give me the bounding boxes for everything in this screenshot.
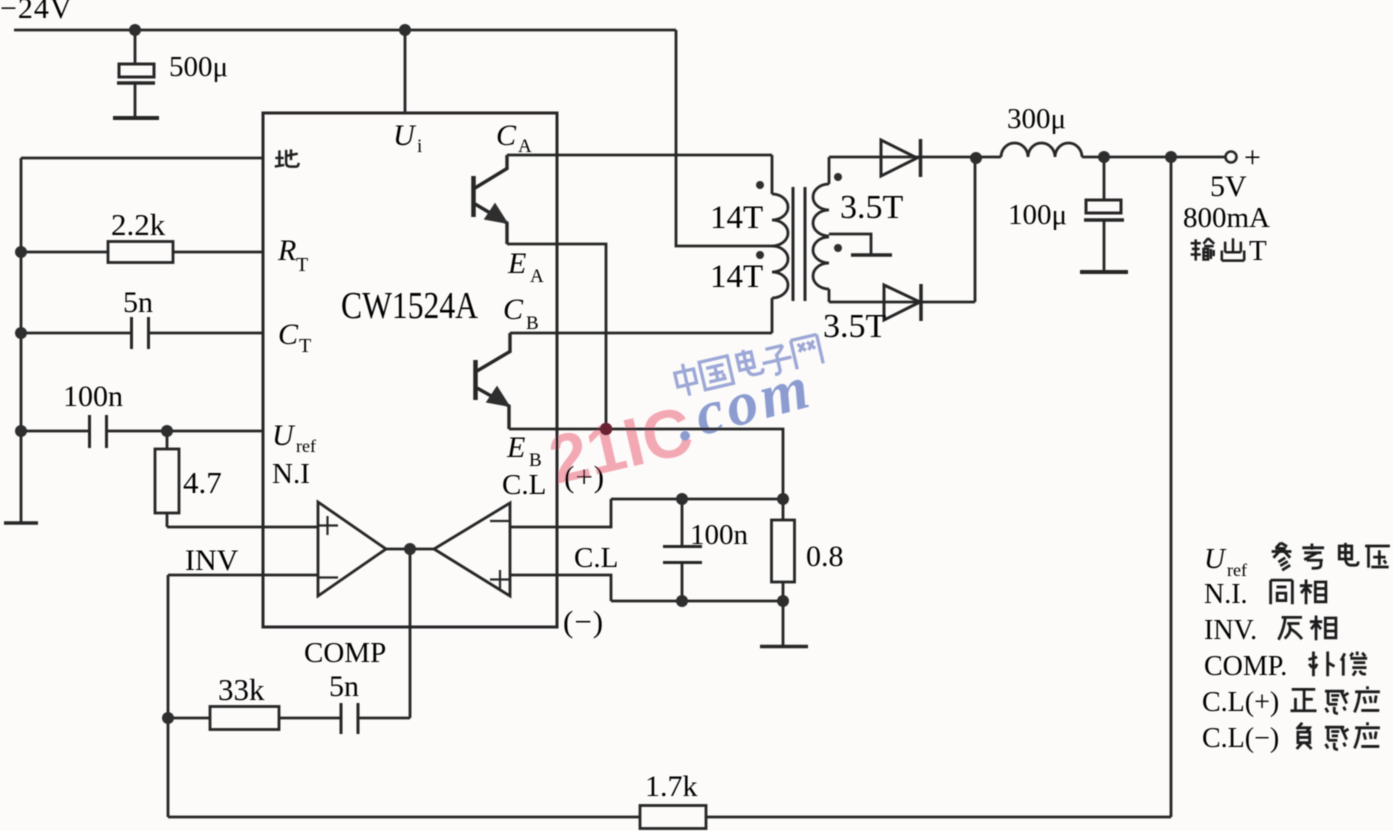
- wire: inductor to terminal: [1082, 156, 1225, 159]
- svg-text:R: R: [277, 234, 296, 267]
- transistor QA emitter lead: [475, 204, 507, 244]
- resistor 2.2k: [108, 242, 173, 263]
- node: filter cap: [1098, 151, 1110, 163]
- watermark 中国电子网: [673, 333, 823, 398]
- wire: -24V top rail: [14, 29, 676, 32]
- svg-text:ref: ref: [1227, 560, 1247, 580]
- svg-text:C.L: C.L: [574, 542, 618, 574]
- node: feedback tap: [1165, 151, 1177, 163]
- transistor QB collector lead: [477, 333, 510, 371]
- node: left rail Uref: [15, 425, 27, 437]
- svg-text:E: E: [506, 431, 525, 464]
- transistor QA collector lead: [475, 155, 507, 188]
- node: rail/500u junction: [129, 24, 141, 36]
- wire: RT pin: [21, 251, 263, 254]
- wire: COMP vertical: [409, 549, 412, 718]
- error amp minus: [318, 576, 338, 578]
- phase dot secondary upper: [834, 173, 842, 181]
- svg-text:5n: 5n: [329, 670, 359, 703]
- wire: CL+ input: [510, 499, 611, 527]
- svg-text:5V: 5V: [1210, 170, 1247, 203]
- svg-text:−24V: −24V: [0, 0, 73, 25]
- transformer T1 primary winding 14T lower: [772, 246, 788, 298]
- svg-text:COMP: COMP: [304, 637, 386, 669]
- wire: amp outputs join: [386, 548, 434, 551]
- transistor QB collector wire CB: [510, 332, 772, 335]
- svg-text:INV: INV: [185, 544, 239, 577]
- capacitor 100u lead: [1103, 157, 1106, 271]
- svg-text:100n: 100n: [63, 380, 123, 413]
- phase dot primary upper: [756, 181, 764, 189]
- svg-text:T: T: [1249, 235, 1267, 267]
- svg-text:100μ: 100μ: [1008, 199, 1067, 231]
- resistor 33k: [210, 707, 279, 730]
- cl amp plus: [490, 570, 510, 589]
- output terminal circle: [1226, 152, 1237, 163]
- svg-text:3.5T: 3.5T: [840, 189, 904, 226]
- svg-text:300μ: 300μ: [1007, 103, 1066, 135]
- node: Uref/4.7 junction: [161, 425, 173, 437]
- svg-text:2.2k: 2.2k: [111, 207, 166, 242]
- svg-text:N.I: N.I: [272, 458, 310, 490]
- svg-text:14T: 14T: [710, 200, 763, 236]
- ground bar: [760, 645, 808, 649]
- ground rail end bar: [4, 521, 38, 525]
- node: rectifier output: [970, 152, 982, 164]
- transformer core: [793, 187, 805, 301]
- error amp plus: [318, 516, 338, 535]
- svg-text:1.7k: 1.7k: [645, 770, 698, 803]
- resistor 0.8: [772, 520, 795, 582]
- wire: ground pin: [21, 157, 263, 160]
- capacitor 500u end bar: [113, 116, 159, 120]
- svg-text:C: C: [503, 293, 524, 326]
- resistor 4.7: [155, 449, 179, 513]
- svg-text:14T: 14T: [710, 259, 763, 295]
- svg-text:33k: 33k: [218, 672, 265, 707]
- svg-text:C.L(−): C.L(−): [1202, 723, 1279, 754]
- node: rail/Ui junction: [399, 24, 411, 36]
- wire: secondary bottom lead: [829, 301, 975, 304]
- wire: top rail drop to primary centre tap: [676, 30, 772, 246]
- svg-text:U: U: [272, 419, 296, 452]
- svg-text:i: i: [417, 136, 422, 157]
- svg-text:4.7: 4.7: [183, 465, 222, 500]
- transistor QA emitter arrow: [485, 204, 507, 223]
- svg-text:500μ: 500μ: [169, 51, 228, 83]
- cl amp minus: [490, 520, 510, 522]
- phase dot secondary lower: [834, 244, 842, 252]
- wire: CT pin: [21, 332, 263, 335]
- svg-text:100n: 100n: [690, 519, 749, 551]
- capacitor 500u lead: [134, 30, 137, 117]
- capacitor 5n plates: [132, 317, 149, 349]
- wire: output feedback vertical: [1170, 157, 1173, 817]
- wire: D2 up to output node: [974, 158, 977, 302]
- op-amp supply wire U_i: [404, 30, 407, 113]
- transformer T1 secondary winding 3.5T lower: [813, 237, 829, 289]
- node: amp outputs: [404, 543, 416, 555]
- wire: sense top net: [611, 498, 783, 501]
- svg-text:B: B: [526, 313, 539, 334]
- wire: secondary top lead: [829, 156, 1001, 159]
- capacitor 100n plates: [90, 415, 107, 448]
- svg-text:U: U: [393, 119, 417, 152]
- svg-text:(+): (+): [564, 459, 605, 494]
- transistor QB base bar: [473, 360, 478, 400]
- capacitor 500u plates: [119, 64, 154, 77]
- transformer T1 secondary winding 3.5T upper: [813, 184, 829, 236]
- svg-text:(−): (−): [563, 604, 604, 639]
- svg-text:.com: .com: [667, 353, 820, 455]
- node: sense top left: [676, 493, 688, 505]
- op-amp current limit amp triangle: [434, 503, 510, 596]
- op-amp error amp triangle: [318, 502, 386, 596]
- wire: N.I pin: [167, 526, 318, 529]
- diode D1: [881, 140, 917, 176]
- wire: Uref pin: [21, 430, 263, 433]
- capacitor 100n CL leads: [681, 499, 684, 601]
- node: sense bottom right: [777, 595, 789, 607]
- svg-text:T: T: [299, 335, 311, 357]
- svg-text:A: A: [530, 266, 544, 287]
- wire: EB to sense resistor: [509, 429, 783, 499]
- svg-text:B: B: [529, 450, 542, 471]
- resistor 0.8 leads: [782, 499, 785, 601]
- op-amp U1 CW1524A box: [263, 113, 557, 627]
- wire: left rail: [20, 158, 23, 522]
- svg-text:C: C: [278, 318, 299, 351]
- wire: INV pin: [168, 574, 318, 577]
- svg-text:U: U: [1204, 543, 1227, 575]
- svg-text:ref: ref: [296, 436, 316, 456]
- label output T: [1191, 238, 1245, 260]
- diode D2 cathode bar: [919, 284, 923, 321]
- capacitor 5n comp plates: [341, 703, 358, 734]
- wire: comp cap to COMP: [359, 717, 410, 720]
- transformer T1 primary spine: [771, 155, 774, 333]
- wire: secondary centre tap: [829, 234, 871, 254]
- wire: sense bottom net: [611, 600, 783, 603]
- transistor QA collector wire CA: [507, 154, 772, 157]
- transformer T1 primary winding 14T upper: [772, 194, 788, 246]
- diode D2: [884, 285, 920, 320]
- diode D1 cathode bar: [919, 139, 923, 177]
- svg-text:0.8: 0.8: [806, 540, 844, 573]
- phase dot primary lower: [756, 251, 764, 259]
- transformer T1 secondary spine: [828, 157, 831, 302]
- svg-text:C.L(+): C.L(+): [1202, 687, 1279, 718]
- svg-text:800mA: 800mA: [1183, 202, 1270, 234]
- node: EA/EB junction: [600, 423, 613, 436]
- svg-text:3.5T: 3.5T: [823, 308, 887, 345]
- resistor 1.7k: [640, 806, 706, 829]
- wire: bottom feedback: [168, 816, 1171, 819]
- node: left rail CT: [15, 327, 27, 339]
- svg-text:C.L: C.L: [502, 469, 546, 501]
- capacitor 100n CL plates: [663, 547, 702, 563]
- node: sense bottom left: [676, 595, 688, 607]
- svg-text:N.I.: N.I.: [1204, 579, 1248, 610]
- transistor QB emitter lead: [477, 388, 509, 429]
- node: left rail RT: [15, 246, 27, 258]
- ground stem: [782, 601, 785, 646]
- secondary centre tap end bar: [851, 253, 892, 257]
- svg-text:COMP.: COMP.: [1204, 651, 1287, 682]
- transistor QB emitter arrow: [487, 387, 509, 406]
- transistor QA base bar: [471, 176, 476, 217]
- svg-text:E: E: [507, 247, 526, 280]
- capacitor 100u plates: [1086, 200, 1121, 213]
- wire: CL- input: [510, 575, 611, 601]
- pin label ground: [275, 149, 299, 166]
- wire: INV feedback vertical: [167, 575, 170, 817]
- inductor 300u: [1001, 143, 1082, 157]
- svg-text:A: A: [518, 136, 532, 157]
- resistor 4.7 leads: [166, 431, 169, 527]
- svg-text:CW1524A: CW1524A: [341, 285, 478, 327]
- svg-text:INV.: INV.: [1204, 615, 1257, 646]
- svg-text:C: C: [496, 119, 517, 152]
- svg-text:T: T: [296, 254, 308, 276]
- wire: 33k leads: [168, 717, 340, 720]
- node: sense top right: [777, 493, 789, 505]
- svg-text:5n: 5n: [123, 286, 153, 319]
- node: INV/33k junction: [162, 712, 174, 724]
- wire: EA to EB: [507, 244, 606, 429]
- capacitor 100u end bar: [1080, 270, 1128, 274]
